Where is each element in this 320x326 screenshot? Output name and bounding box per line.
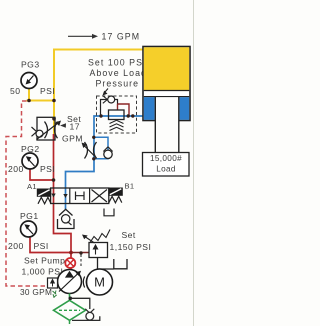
svg-text:GPM: GPM	[62, 134, 83, 144]
wire: blue rod-side line cylinder to counterbalance	[66, 116, 146, 209]
pointer to FC1	[60, 123, 66, 128]
check valve ball of FC1	[36, 130, 43, 137]
rod-side fluid left (blue)	[144, 97, 155, 120]
piston rod	[155, 97, 179, 154]
svg-text:PG3: PG3	[21, 60, 40, 70]
piston	[144, 90, 189, 92]
electric motor M1	[87, 269, 113, 295]
pilot line of CB1 (dark red)	[118, 104, 130, 116]
bypass check valve around strainer	[69, 297, 100, 321]
pointer arrows near 30 GPM	[53, 291, 57, 298]
svg-text:30 GPM: 30 GPM	[20, 287, 52, 297]
svg-text:Above Load: Above Load	[90, 68, 147, 78]
orifice arcs of FC2	[85, 142, 97, 159]
suction line (green)	[69, 294, 71, 301]
label Set 17 GPM	[60, 114, 83, 144]
compensator arrow through pump	[59, 274, 78, 292]
svg-text:PG1: PG1	[20, 211, 39, 221]
wire: relief valve inlet branch	[71, 252, 89, 254]
shaft coupling	[83, 277, 87, 288]
counterbalance valve CB1	[97, 96, 137, 133]
svg-text:Set 100 PSI: Set 100 PSI	[88, 58, 147, 68]
label Set 100 PSI Above Load Pressure	[88, 58, 147, 96]
svg-text:Load: Load	[156, 165, 176, 174]
check valve seat of FC1	[32, 127, 37, 136]
solenoid left	[37, 189, 50, 196]
rod-side fluid right (blue)	[180, 97, 190, 120]
svg-text:1,150 PSI: 1,150 PSI	[110, 242, 152, 252]
adjust arrow of FC1	[37, 123, 59, 140]
wire: yellow gauge branch	[27, 89, 55, 101]
wire: red PG1 gauge stem	[30, 237, 71, 253]
tank symbol	[114, 259, 127, 269]
svg-text:B1: B1	[125, 182, 135, 191]
svg-text:1,000 PSI: 1,000 PSI	[22, 267, 64, 277]
svg-text:Set: Set	[122, 230, 136, 240]
wire: load-sensing pilot dashed line	[6, 101, 48, 286]
pump P1 (pressure compensated)	[48, 270, 82, 294]
svg-text:PSI: PSI	[34, 241, 49, 251]
node: yellow corner junction	[52, 99, 56, 103]
adjust arrow	[86, 237, 95, 243]
node: yellow tee at PG3	[27, 99, 31, 103]
svg-text:A1: A1	[27, 182, 37, 191]
pilot dashes	[80, 255, 82, 267]
node: FC2 bottom tee	[92, 157, 95, 160]
check ball of FC2	[104, 150, 112, 158]
node: PG2 tee	[52, 178, 56, 182]
svg-text:Pressure: Pressure	[96, 79, 140, 89]
wire: red pressure line pump to A1	[54, 134, 72, 270]
relief valve RV1	[81, 230, 151, 270]
node: pump outlet tee	[69, 251, 73, 255]
solenoid right	[109, 188, 123, 195]
svg-text:50: 50	[10, 86, 20, 96]
gauge PG3	[10, 60, 55, 97]
envelope 2 blocked ports	[76, 192, 85, 201]
node: CB1 right port	[127, 114, 130, 117]
relief element body of CB1	[109, 110, 125, 120]
adjust arrow of FC2	[85, 146, 97, 158]
compensator box	[48, 278, 58, 288]
node: FC1 inlet	[52, 117, 56, 121]
svg-text:17: 17	[70, 122, 80, 132]
node: FC2 top tee	[92, 136, 95, 139]
svg-text:M: M	[94, 275, 105, 290]
node: CB1 left port	[99, 114, 102, 117]
gauge PG1	[8, 211, 49, 251]
tank symbol below valve	[58, 209, 75, 228]
flow arrow 17 GPM	[68, 32, 140, 42]
suction continues below	[69, 321, 71, 326]
gauge PG2	[8, 144, 55, 174]
flow control FC1 with bypass check	[32, 117, 62, 140]
svg-text:PSI: PSI	[40, 164, 55, 174]
svg-text:200: 200	[8, 164, 24, 174]
envelope 3 crossed arrows	[92, 190, 108, 203]
svg-text:200: 200	[8, 241, 24, 251]
directional valve V1 (4/3 solenoid)	[27, 182, 134, 204]
cap-side fluid (yellow)	[144, 47, 189, 90]
spring right	[109, 196, 122, 203]
spring left	[38, 197, 51, 204]
flow control FC2 meter-out	[82, 136, 113, 161]
outlet to tank	[98, 258, 114, 270]
svg-text:Set Pump: Set Pump	[24, 256, 65, 266]
check seat of FC2	[103, 147, 112, 152]
tank symbol under right solenoid	[104, 209, 114, 216]
check seat of CB1	[103, 96, 108, 104]
check branch of CB1	[101, 100, 118, 117]
spring of CB1	[110, 120, 124, 130]
svg-text:PSI: PSI	[40, 86, 55, 96]
load box 15,000#	[143, 153, 190, 177]
suction strainer S1	[54, 300, 86, 320]
pointer to counterbalance valve	[105, 89, 108, 93]
wire: blue bypass branch around FC2	[94, 137, 108, 159]
envelope 1 flow arrows	[51, 194, 55, 198]
cylinder C1	[143, 47, 190, 155]
wire: yellow supply line to cylinder cap	[54, 50, 143, 135]
wire: red PG2 gauge stem	[30, 169, 54, 181]
node: relief pilot tee	[79, 251, 82, 254]
svg-text:15,000#: 15,000#	[150, 154, 182, 163]
spring	[90, 230, 110, 243]
check ball of CB1	[108, 96, 115, 103]
body	[89, 243, 108, 258]
svg-text:17 GPM: 17 GPM	[102, 32, 141, 42]
orifice arcs of FC1	[45, 122, 58, 139]
page edge shading	[193, 0, 195, 326]
gauge test point (circle X)	[65, 258, 75, 268]
